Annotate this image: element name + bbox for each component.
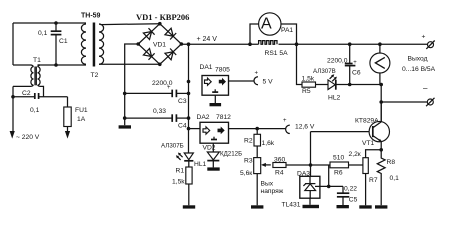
svg-text:0,1: 0,1 (38, 30, 48, 37)
wire R6 left vert to DA3 pin (328, 165, 330, 186)
wire left 220V vertical (12, 86, 14, 96)
wire R1 to ground (188, 184, 190, 205)
wire minus out (381, 101, 427, 103)
svg-text:0,1: 0,1 (390, 175, 400, 182)
svg-text:HL1: HL1 (194, 161, 207, 168)
wire bridge left to ground rail (125, 44, 139, 125)
arc 12,6V tap (286, 125, 290, 133)
node base/DA3 (309, 163, 313, 167)
svg-text:12,6 V: 12,6 V (295, 124, 315, 131)
node C4 left rail (123, 116, 127, 120)
wire T1 left top lead (13, 64, 31, 66)
ground bar R1 (183, 205, 195, 208)
node DA2 input tee (187, 127, 191, 131)
node C1 bottom (54, 63, 58, 67)
node minus out (379, 100, 383, 104)
svg-text:C1: C1 (59, 38, 68, 45)
svg-text:T2: T2 (91, 72, 99, 79)
svg-text:R5: R5 (302, 88, 311, 95)
wire collector up (380, 102, 382, 122)
wire HL1 to R1 (188, 161, 190, 167)
capacitor C2 (35, 93, 68, 99)
svg-text:+ 24 V: + 24 V (197, 36, 218, 43)
capacitor C5 (342, 186, 344, 193)
node C2 left (11, 95, 15, 99)
svg-text:1,5k: 1,5k (172, 179, 185, 186)
shunt RS1 (259, 41, 277, 45)
resistor R5 (302, 82, 316, 87)
node bridge left (136, 42, 140, 46)
svg-text:АЛ307В: АЛ307В (313, 68, 336, 75)
fuse FU1 (64, 107, 71, 127)
transformer T2 (81, 23, 103, 67)
wire 220V left drop (12, 97, 14, 131)
svg-text:VD1: VD1 (153, 42, 166, 49)
wire R5 branch (297, 44, 303, 84)
TL431 DA3 (300, 176, 320, 198)
minus bus (380, 85, 382, 122)
svg-text:+: + (255, 71, 259, 77)
ground bar DA1 (210, 103, 222, 106)
arrow 220V left (10, 131, 15, 139)
svg-text:1,5k: 1,5k (302, 75, 315, 82)
svg-text:R2: R2 (244, 138, 253, 145)
svg-text:+: + (283, 118, 287, 124)
wire R6 right to R7 (349, 164, 363, 166)
wire minus bus left (HL2 row) (350, 84, 382, 86)
svg-text:+: + (422, 34, 426, 41)
wire ammeter branch (250, 24, 259, 44)
node ammeter left (248, 42, 252, 46)
svg-text:Вых: Вых (261, 181, 274, 188)
svg-text:КТ829А: КТ829А (355, 117, 379, 124)
svg-text:C3: C3 (178, 98, 187, 105)
svg-text:2200,0: 2200,0 (327, 58, 348, 65)
svg-text:0...16 В/5А: 0...16 В/5А (402, 66, 436, 73)
svg-text:R8: R8 (387, 159, 396, 166)
terminal plus (428, 42, 434, 48)
bridge rectifier VD1 (138, 24, 181, 65)
wire node to R6 (311, 164, 331, 166)
svg-text:7812: 7812 (216, 114, 231, 121)
svg-text:0,22: 0,22 (344, 185, 357, 192)
ground bar VD2 (207, 167, 219, 170)
svg-text:5 V: 5 V (263, 79, 274, 86)
svg-text:R6: R6 (334, 170, 343, 177)
terminal minus (427, 99, 433, 105)
node R2 top (255, 127, 259, 131)
node bridge right (180, 42, 184, 46)
svg-text:DA2: DA2 (197, 114, 210, 121)
resistor R1 (186, 167, 192, 184)
wire R3 to ground (256, 174, 258, 206)
svg-text:510: 510 (333, 155, 344, 162)
svg-text:C5: C5 (349, 197, 358, 204)
svg-text:~ 220 V: ~ 220 V (16, 134, 40, 141)
svg-text:+: + (353, 60, 357, 66)
svg-text:C4: C4 (178, 123, 187, 130)
wire top loop left vertical (12, 23, 14, 65)
capacitor C6 (348, 42, 352, 46)
ground bar R3 (251, 205, 263, 208)
svg-text:C6: C6 (352, 69, 361, 76)
wire DA1 output 5V (229, 80, 254, 82)
resistor R7 (363, 158, 368, 174)
ground bar (bridge minus rail) (119, 125, 131, 128)
svg-text:АЛ307Б: АЛ307Б (161, 143, 184, 150)
capacitor C1 (51, 23, 62, 65)
diode VD2 (212, 143, 214, 152)
ammeter PA1 (259, 13, 281, 35)
wire T1 right top lead to T2 (38, 64, 87, 66)
node voltmeter bottom / minus bus top (379, 83, 383, 87)
svg-text:7805: 7805 (215, 66, 230, 73)
wire T2 secondary bottom to bridge (99, 63, 160, 65)
potentiometer R3 (254, 158, 261, 174)
svg-text:R3: R3 (244, 158, 253, 165)
svg-text:R1: R1 (176, 167, 185, 174)
wire DA3 ref to C5 (320, 185, 343, 187)
wire T2 secondary top to bridge (99, 23, 160, 26)
voltmeter PV (379, 44, 381, 53)
svg-text:PA1: PA1 (281, 27, 293, 34)
svg-text:VD1 - КВР206: VD1 - КВР206 (136, 12, 189, 22)
wire DA2 input (189, 128, 201, 130)
svg-text:2,2к: 2,2к (349, 151, 361, 158)
node C3 right (187, 92, 191, 96)
svg-text:VD2: VD2 (203, 145, 216, 152)
svg-text:C2: C2 (22, 90, 31, 97)
wire C2 row (13, 96, 35, 98)
svg-text:RS1 5A: RS1 5A (265, 50, 289, 57)
wire DA1 ground stub (214, 95, 216, 103)
svg-text:R7: R7 (369, 177, 378, 184)
svg-text:ТН-59: ТН-59 (81, 12, 101, 19)
svg-text:360: 360 (274, 156, 285, 163)
svg-text:0,33: 0,33 (153, 108, 166, 115)
node C1 top (54, 21, 58, 25)
wire DA2 output 12V (229, 128, 286, 130)
regulator DA2 7812 (200, 122, 229, 143)
svg-text:5,6к: 5,6к (240, 170, 252, 177)
wire +24V main (181, 43, 258, 45)
svg-text:1,6k: 1,6k (262, 140, 275, 147)
svg-text:Выход: Выход (408, 56, 428, 63)
node C3 left rail (123, 92, 127, 96)
resistor R2 (256, 129, 258, 135)
node bridge top (158, 22, 162, 26)
svg-text:DA1: DA1 (200, 64, 213, 71)
svg-text:+: + (167, 85, 171, 91)
capacitor C4 (125, 114, 189, 122)
svg-text:R4: R4 (275, 170, 284, 177)
node C4 right (187, 116, 191, 120)
svg-text:напряж: напряж (261, 188, 284, 195)
LED HL1 (176, 153, 194, 161)
rail +24 to DA1/DA2 (187, 42, 191, 46)
wire FU1 top (67, 97, 69, 107)
svg-text:FU1: FU1 (75, 107, 88, 114)
wire top horizontal 220V loop (13, 22, 86, 24)
transformer T1 (13, 65, 44, 97)
node DA1 input (187, 80, 191, 84)
svg-text:VT1: VT1 (362, 140, 375, 147)
svg-text:0,1: 0,1 (30, 107, 40, 114)
node bridge bottom (158, 63, 162, 67)
resistor R8 zigzag (377, 150, 385, 206)
svg-text:T1: T1 (33, 57, 41, 64)
svg-text:DA3: DA3 (297, 170, 310, 177)
resistor R4 (273, 163, 286, 168)
resistor R6 (330, 162, 349, 168)
wire DA3 anode ground (309, 198, 311, 205)
wire VT1 base L (311, 131, 373, 133)
svg-text:–: – (423, 84, 428, 93)
svg-text:TL431: TL431 (282, 202, 301, 209)
svg-text:HL2: HL2 (328, 95, 341, 102)
svg-text:КД212Б: КД212Б (220, 151, 242, 158)
wire emitter down (380, 141, 382, 149)
arrow 220V right (65, 131, 70, 139)
transistor VT1 KT829A (369, 121, 389, 141)
node ammeter right (295, 42, 299, 46)
capacitor C3 (125, 90, 189, 98)
svg-text:1A: 1A (77, 116, 86, 123)
node +24 voltmeter top (378, 42, 382, 46)
svg-text:A: A (261, 16, 272, 33)
LED HL2 (328, 74, 337, 90)
regulator DA1 7805 (202, 76, 229, 96)
arc 5V tap (254, 77, 258, 85)
